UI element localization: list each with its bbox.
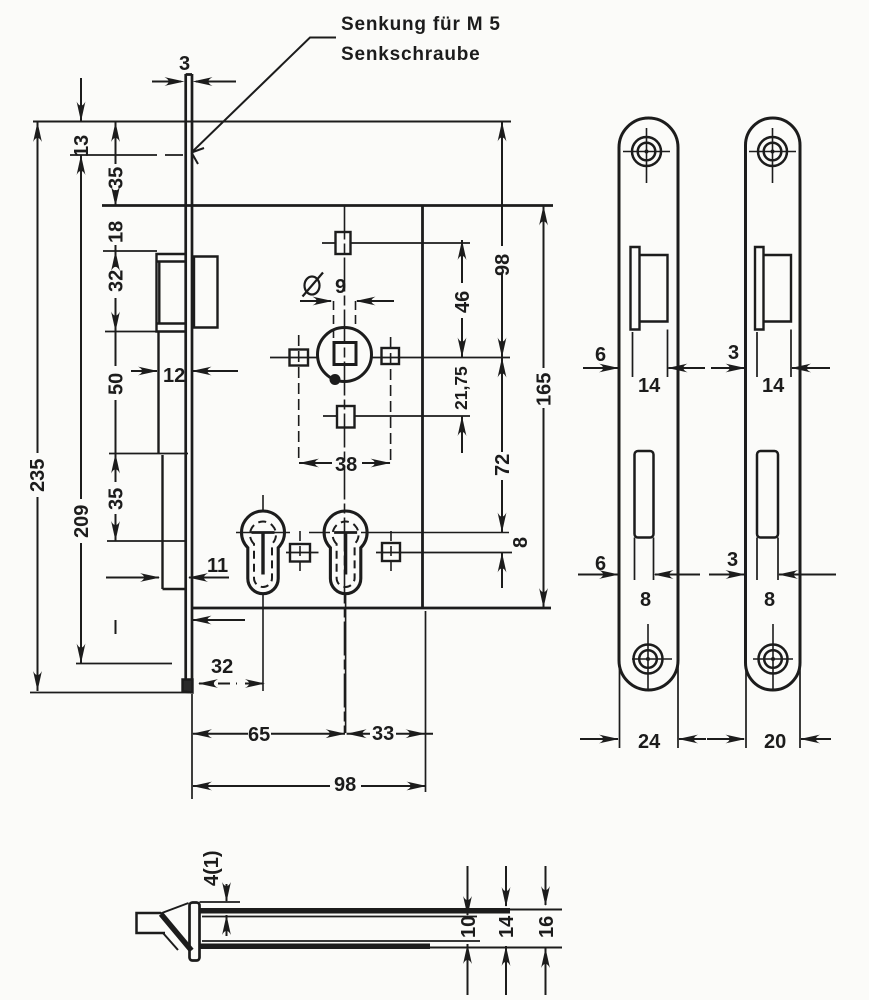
follower square hole xyxy=(334,343,356,365)
dimension line d9 xyxy=(300,297,394,340)
svg-text:8: 8 xyxy=(764,589,775,611)
dimension 65 xyxy=(192,724,346,746)
svg-text:14: 14 xyxy=(638,375,661,397)
plate1 latch cutout with lip xyxy=(631,247,668,330)
svg-text:24: 24 xyxy=(638,731,661,753)
plate2 dims 3 and 14 xyxy=(712,330,830,398)
pin dot xyxy=(330,374,341,385)
svg-text:33: 33 xyxy=(372,723,394,745)
top square hole xyxy=(336,232,351,254)
note: Senkung fuer M5 Senkschraube xyxy=(341,14,501,65)
dimension 32 (to first cylinder) xyxy=(198,656,265,688)
svg-text:3: 3 xyxy=(179,53,190,75)
leader line to countersink xyxy=(192,38,337,165)
svg-text:12: 12 xyxy=(163,365,185,387)
small square right of cyl2 xyxy=(376,531,512,572)
arrow line below case bottom xyxy=(192,616,246,625)
svg-text:14: 14 xyxy=(496,915,518,938)
plate1 dims 6 and 14 xyxy=(583,330,718,398)
centerline ext of bottom square xyxy=(323,415,470,417)
latch body box behind faceplate xyxy=(194,257,218,328)
svg-text:Senkschraube: Senkschraube xyxy=(341,44,481,65)
bottom view: case bottom band xyxy=(200,944,430,950)
dimension 16 xyxy=(536,866,558,995)
faceplate (Stulp) front view xyxy=(186,74,192,687)
svg-text:14: 14 xyxy=(762,375,785,397)
svg-text:35: 35 xyxy=(106,488,128,510)
svg-text:Senkung für M 5: Senkung für M 5 xyxy=(341,14,501,35)
svg-text:38: 38 xyxy=(335,454,357,476)
svg-text:4(1): 4(1) xyxy=(201,850,223,886)
dimension 10 xyxy=(458,866,480,995)
plate2 bolt cutout xyxy=(757,451,778,538)
dimension 235 xyxy=(27,122,49,691)
bottom view: case inner bottom line xyxy=(202,940,480,942)
dimension 33 xyxy=(347,723,433,745)
plate2 latch cutout with lip xyxy=(755,247,791,330)
plate2 dim 20 xyxy=(707,662,831,753)
dimension 11 (box B) xyxy=(106,555,229,582)
dimension 38 xyxy=(299,454,391,476)
faceplate bottom foot xyxy=(183,680,193,693)
plate2 bottom screw hole xyxy=(753,624,793,690)
striking plate 1 (24 wide) outline xyxy=(619,118,678,690)
bottom view: case top band xyxy=(200,908,510,914)
striking plate 2 (20 wide) outline xyxy=(746,118,801,690)
dimension 14 xyxy=(496,866,518,995)
centerline ext of top square xyxy=(322,242,470,244)
svg-text:32: 32 xyxy=(211,656,233,678)
plate1 top screw hole xyxy=(623,128,670,183)
right square hole xyxy=(382,348,400,364)
svg-text:50: 50 xyxy=(106,373,128,395)
svg-text:209: 209 xyxy=(71,505,93,538)
main vertical centerline xyxy=(344,206,346,734)
dimension 98 bottom xyxy=(192,774,427,796)
latch head protruding left of faceplate xyxy=(157,254,186,332)
top reference line xyxy=(33,121,511,123)
svg-text:21,75: 21,75 xyxy=(451,366,471,410)
svg-text:20: 20 xyxy=(764,731,786,753)
right dim line 98 / 72 / 8 xyxy=(492,122,532,589)
left chain dimensions 35 18 32 50 35 xyxy=(106,122,128,634)
svg-text:9: 9 xyxy=(335,276,346,298)
plate1 bottom screw hole xyxy=(632,624,672,690)
dimension 13 and 209 xyxy=(71,78,93,664)
dimension 4(1) xyxy=(200,850,241,936)
left square hole xyxy=(290,350,309,366)
plate1 dims 6 and 8 xyxy=(578,538,700,612)
vertical dashed centerlines of side squares xyxy=(299,335,391,463)
svg-text:6: 6 xyxy=(595,344,606,366)
svg-text:18: 18 xyxy=(106,221,128,243)
follower circle (nut) xyxy=(318,328,372,382)
lower protrusion box A xyxy=(157,332,159,454)
right dim chain 46 / 21,75 xyxy=(451,240,474,453)
plate1 bolt cutout xyxy=(635,451,654,538)
svg-text:98: 98 xyxy=(492,254,514,276)
bottom square hole xyxy=(337,406,355,428)
left extension lines xyxy=(30,155,189,693)
bottom view: latch head section xyxy=(137,913,166,933)
svg-text:3: 3 xyxy=(727,549,738,571)
svg-text:65: 65 xyxy=(248,724,270,746)
plate2 top screw hole xyxy=(749,128,796,183)
right dim line 165 xyxy=(534,206,556,609)
svg-text:16: 16 xyxy=(536,916,558,938)
svg-text:72: 72 xyxy=(492,454,514,476)
svg-text:3: 3 xyxy=(728,342,739,364)
cylinder hole 2 xyxy=(309,511,509,733)
svg-text:8: 8 xyxy=(640,589,651,611)
svg-text:235: 235 xyxy=(27,459,49,492)
svg-text:46: 46 xyxy=(452,291,474,313)
svg-text:11: 11 xyxy=(207,555,228,577)
dimension 12 (latch protrusion) xyxy=(131,365,238,387)
bottom view: case inner top line xyxy=(202,916,477,918)
horizontal centerline through follower row xyxy=(270,357,510,359)
plate2 dims 3 and 8 xyxy=(709,538,836,612)
svg-text:13: 13 xyxy=(71,135,93,157)
svg-text:35: 35 xyxy=(106,167,128,189)
bottom view: latch bevel xyxy=(161,903,192,951)
dimension 3 (faceplate thickness) xyxy=(152,53,236,86)
bottom extension lines xyxy=(192,611,426,799)
svg-text:98: 98 xyxy=(334,774,356,796)
bottom view: faceplate bar xyxy=(190,903,200,961)
svg-text:32: 32 xyxy=(106,270,128,292)
svg-text:10: 10 xyxy=(458,916,480,938)
diameter symbol and 9 xyxy=(303,273,347,299)
lock case outline xyxy=(102,206,553,609)
plate1 dim 24 xyxy=(580,662,706,753)
svg-text:165: 165 xyxy=(534,373,556,406)
lower protrusion box B xyxy=(163,455,186,589)
small square left of cyl2 xyxy=(286,531,319,572)
svg-text:8: 8 xyxy=(510,537,532,548)
cylinder hole 1 xyxy=(236,495,290,691)
